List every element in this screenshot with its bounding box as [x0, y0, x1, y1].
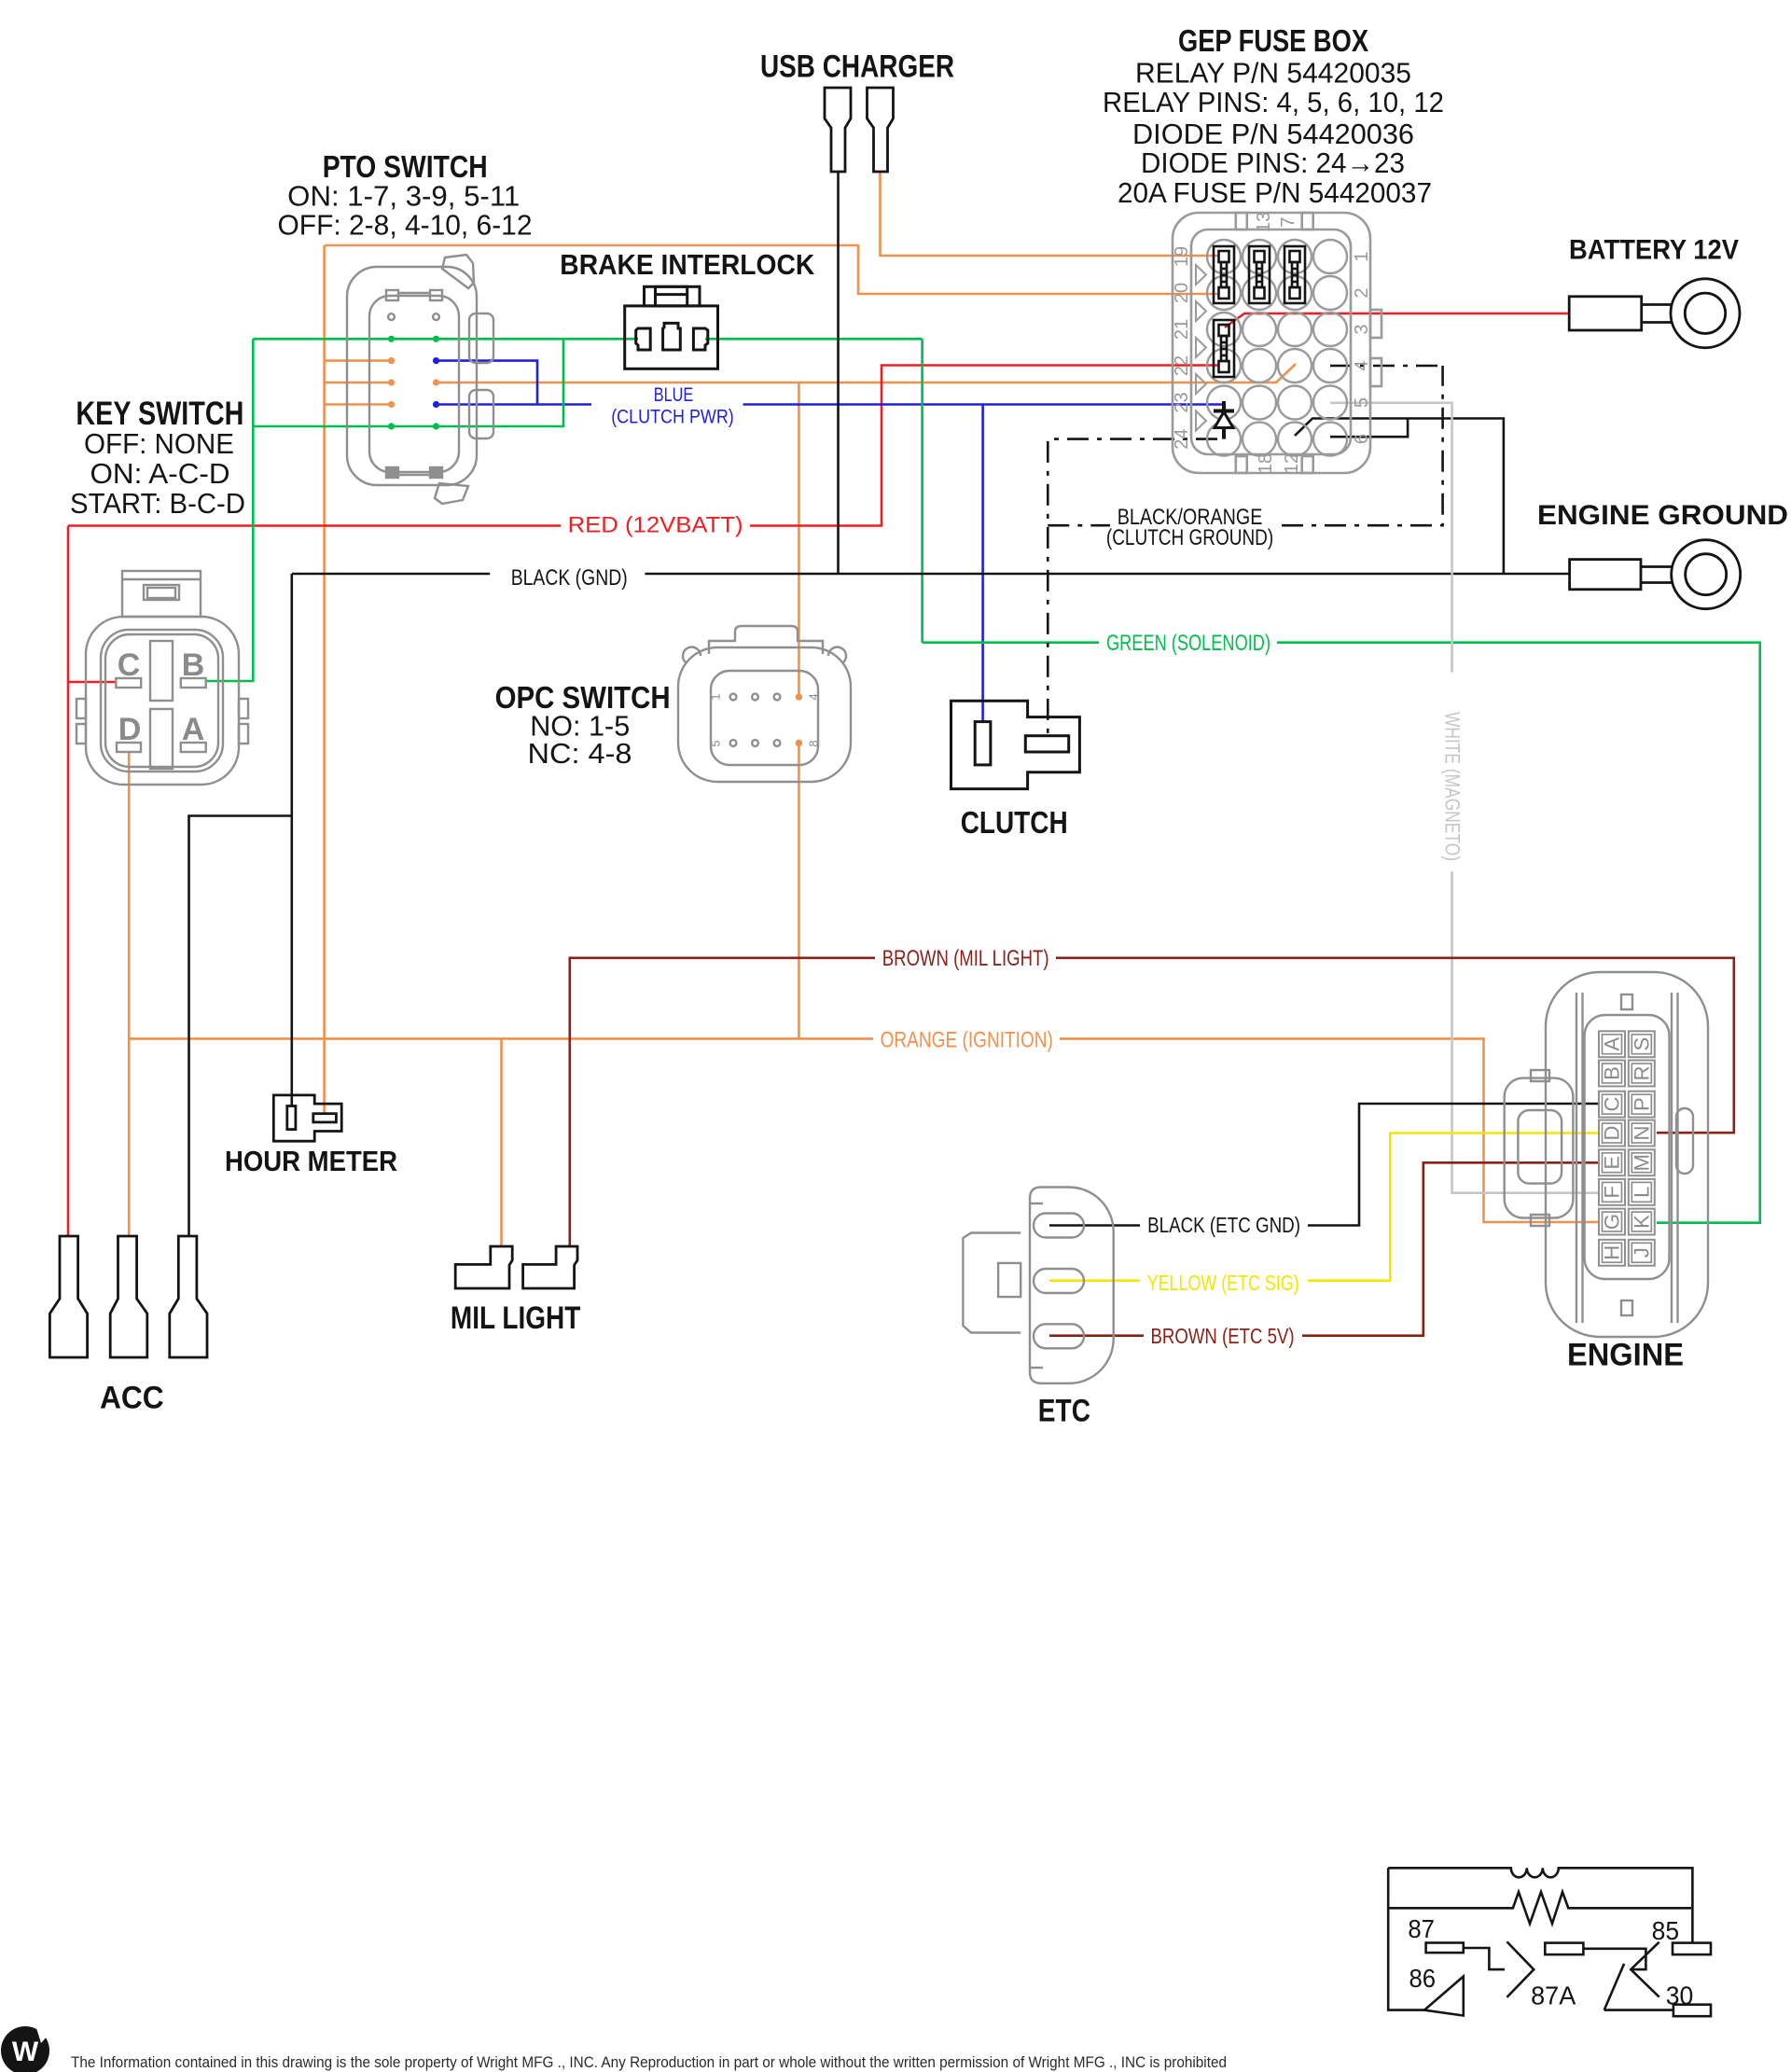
- wire orange ignition horizontal (right of label) to engine pin G: [1060, 1038, 1599, 1222]
- svg-text:ON: A-C-D: ON: A-C-D: [90, 457, 230, 490]
- ACC terminal 3: [170, 1236, 207, 1357]
- svg-text:8: 8: [807, 740, 821, 746]
- wire green: key switch B riser: [207, 339, 254, 681]
- relay schematic: [1388, 1868, 1711, 2016]
- wire black ETC GND: pin to label: [1049, 1224, 1140, 1227]
- engine connector pin grid: [1599, 1031, 1655, 1265]
- svg-text:P: P: [1630, 1097, 1653, 1111]
- wire red: key switch C stub: [68, 681, 116, 684]
- svg-text:RELAY P/N 54420035: RELAY P/N 54420035: [1135, 56, 1411, 89]
- battery ring terminal: [1569, 279, 1740, 348]
- PTO switch connector body: [347, 255, 493, 504]
- svg-text:R: R: [1630, 1065, 1653, 1080]
- svg-text:D: D: [118, 712, 142, 747]
- wire black ETC GND: label to engine pin C: [1308, 1104, 1599, 1226]
- svg-text:ACC: ACC: [100, 1381, 164, 1416]
- engine connector pin inner boxes: [1603, 1035, 1652, 1262]
- svg-text:ENGINE GROUND: ENGINE GROUND: [1537, 500, 1788, 531]
- svg-text:OFF: NONE: OFF: NONE: [84, 427, 234, 460]
- svg-text:21: 21: [1172, 319, 1192, 340]
- wire brown ETC 5V: label to engine pin E: [1302, 1162, 1599, 1335]
- ACC terminal 1: [49, 1236, 87, 1357]
- svg-text:85: 85: [1652, 1916, 1680, 1945]
- wire orange ignition: PTO right pin to fuse pin 4 (diagonal end): [436, 364, 1296, 382]
- wire green row1 to brake interlock: [253, 338, 638, 341]
- wire black GND horizontal (left of label): [292, 573, 490, 576]
- engine connector pin letters: [1601, 1037, 1654, 1260]
- wire orange: PTO branch to fuse pin 20: [325, 245, 1219, 294]
- wire orange: USB charger terminal 2 to fuse pin 19: [881, 172, 1220, 256]
- wire orange: vertical drop to hour meter: [323, 245, 326, 1113]
- MIL light connector left: [455, 1246, 512, 1288]
- wire red: vertical to ACC terminal 1: [67, 526, 70, 1237]
- svg-text:ENGINE: ENGINE: [1567, 1338, 1684, 1373]
- svg-text:HOUR METER: HOUR METER: [225, 1145, 397, 1177]
- key switch connector: [76, 571, 248, 785]
- svg-text:E: E: [1601, 1156, 1624, 1170]
- wire black: fuse pin 6 jog: [1330, 419, 1408, 438]
- wire blue: PTO right pin row2 jog: [436, 361, 537, 405]
- svg-text:18: 18: [1256, 453, 1276, 474]
- svg-text:START: B-C-D: START: B-C-D: [70, 487, 245, 520]
- wire yellow ETC SIG: pin to label: [1049, 1279, 1140, 1282]
- svg-text:C: C: [1601, 1097, 1624, 1112]
- wire green solenoid (left of label): [923, 641, 1099, 644]
- svg-text:87: 87: [1408, 1914, 1435, 1943]
- svg-text:W: W: [12, 2037, 39, 2067]
- svg-text:30: 30: [1666, 1982, 1694, 2010]
- svg-text:4: 4: [1352, 360, 1372, 370]
- fuse box pin cavities (4x6 circles): [1207, 240, 1347, 456]
- svg-text:GEP FUSE BOX: GEP FUSE BOX: [1178, 23, 1368, 58]
- wire blue clutch pwr (left of label): [436, 403, 591, 406]
- svg-text:22: 22: [1172, 355, 1192, 376]
- wire green solenoid (right of label) to engine pin K: [1277, 643, 1760, 1223]
- svg-text:BLUE: BLUE: [654, 384, 693, 406]
- svg-text:A: A: [1601, 1037, 1624, 1051]
- fuse symbol col1 rows1-2: [1214, 246, 1234, 303]
- wire red: fuse pin 3 to battery terminal: [1225, 313, 1569, 327]
- relay switch arm 87-87A: [1507, 1941, 1534, 1996]
- svg-text:20A FUSE P/N 54420037: 20A FUSE P/N 54420037: [1118, 176, 1432, 209]
- svg-text:PTO SWITCH: PTO SWITCH: [323, 149, 488, 184]
- relay coil top line: [1388, 1868, 1692, 1942]
- wire orange: drop to MIL light left connector: [500, 1038, 503, 1246]
- svg-text:M: M: [1630, 1154, 1653, 1171]
- svg-text:7: 7: [1278, 216, 1298, 227]
- wire orange: drop to OPC pin 4: [798, 383, 800, 696]
- wire black dash: clutch ground riser to fuse pin 24: [1048, 366, 1442, 734]
- svg-text:20: 20: [1172, 283, 1192, 303]
- svg-text:GREEN (SOLENOID): GREEN (SOLENOID): [1106, 631, 1270, 656]
- engine ground ring terminal: [1570, 540, 1741, 609]
- wire brown ETC 5V: pin to label: [1049, 1334, 1144, 1337]
- engine connector left latch wing: [1505, 1070, 1574, 1226]
- svg-text:S: S: [1630, 1037, 1653, 1051]
- wire green row1 brake interlock to corner: [705, 338, 923, 341]
- relay pin 30: [1673, 2005, 1711, 2017]
- MIL light connector right: [523, 1246, 577, 1288]
- wire red 12VBATT (right of label) to fuse pin 22: [750, 366, 1219, 526]
- svg-text:1: 1: [1352, 251, 1372, 261]
- fuse box pin numbers: [1172, 212, 1372, 474]
- PTO pins (colored): [388, 336, 439, 430]
- wire black GND horizontal (right of label) to engine ground terminal: [645, 573, 1569, 576]
- svg-text:12: 12: [1282, 453, 1302, 474]
- engine connector capsule: [1546, 972, 1708, 1337]
- svg-text:BROWN (MIL LIGHT): BROWN (MIL LIGHT): [882, 946, 1049, 971]
- GEP fuse box body: [1173, 213, 1381, 473]
- svg-text:ETC: ETC: [1038, 1393, 1090, 1428]
- svg-text:J: J: [1630, 1247, 1653, 1258]
- svg-text:MIL LIGHT: MIL LIGHT: [451, 1300, 581, 1336]
- diode symbol at fuse pins 23-24: [1214, 401, 1234, 439]
- ETC connector: [963, 1188, 1113, 1384]
- svg-text:L: L: [1630, 1187, 1653, 1198]
- relay switch arm 85-30: [1631, 1942, 1659, 1997]
- svg-text:DIODE PINS: 24→23: DIODE PINS: 24→23: [1141, 146, 1405, 179]
- svg-text:D: D: [1601, 1126, 1624, 1141]
- svg-text:H: H: [1601, 1245, 1624, 1260]
- wire black: USB charger terminal 1 to GND: [837, 172, 840, 574]
- svg-text:K: K: [1630, 1215, 1653, 1229]
- svg-text:4: 4: [807, 693, 821, 700]
- USB charger blade terminal 2: [868, 88, 894, 172]
- clutch connector: [951, 701, 1080, 788]
- svg-text:RED (12VBATT): RED (12VBATT): [568, 513, 743, 538]
- USB charger blade terminal 1: [825, 88, 851, 172]
- fuse box left edge triangle markers: [1196, 265, 1206, 431]
- wire blue: drop to clutch left pin: [981, 405, 984, 724]
- wire orange: OPC pin 8 drop to ignition line: [798, 744, 800, 1038]
- relay pin 87: [1426, 1943, 1464, 1954]
- svg-text:BLACK (GND): BLACK (GND): [511, 565, 628, 591]
- svg-text:B: B: [1601, 1066, 1624, 1080]
- brake interlock connector: [625, 286, 718, 369]
- relay pin 86 triangle: [1424, 1977, 1464, 2016]
- svg-text:A: A: [182, 712, 205, 747]
- svg-text:BRAKE INTERLOCK: BRAKE INTERLOCK: [560, 248, 815, 281]
- svg-text:C: C: [118, 647, 141, 683]
- fuse symbol col3 rows1-2: [1284, 246, 1305, 303]
- svg-text:6: 6: [1352, 434, 1372, 444]
- svg-text:N: N: [1630, 1126, 1653, 1141]
- svg-text:BROWN (ETC 5V): BROWN (ETC 5V): [1151, 1324, 1295, 1348]
- wire orange: PTO left pin stubs: [325, 359, 392, 362]
- svg-text:DIODE P/N 54420036: DIODE P/N 54420036: [1132, 118, 1414, 150]
- svg-text:3: 3: [1352, 324, 1372, 334]
- wire black: GND drop to hour meter: [290, 574, 293, 1106]
- svg-text:ORANGE (IGNITION): ORANGE (IGNITION): [881, 1028, 1053, 1053]
- relay box left and bottom: [1388, 1868, 1424, 2009]
- relay pin 85: [1673, 1943, 1711, 1955]
- relay resistor line: [1388, 1892, 1691, 1924]
- OPC corner pin numbers: [709, 693, 821, 746]
- svg-text:USB CHARGER: USB CHARGER: [760, 49, 954, 85]
- svg-text:(CLUTCH GROUND): (CLUTCH GROUND): [1106, 525, 1273, 550]
- svg-text:The Information contained in t: The Information contained in this drawin…: [71, 2053, 1227, 2071]
- svg-text:(CLUTCH PWR): (CLUTCH PWR): [611, 407, 734, 428]
- svg-text:BATTERY 12V: BATTERY 12V: [1569, 235, 1739, 266]
- Wright logo: [1, 2026, 49, 2072]
- svg-text:87A: 87A: [1531, 1982, 1576, 2010]
- svg-text:5: 5: [1352, 397, 1372, 408]
- svg-text:F: F: [1601, 1186, 1624, 1198]
- wire black: fuse pin 6 to GND: [1295, 419, 1504, 575]
- fuse symbol col2 rows1-2: [1249, 246, 1270, 303]
- fuse symbol col1 rows3-4: [1214, 320, 1234, 377]
- wire white magneto: fuse pin 5 to engine pin F: [1330, 403, 1599, 1193]
- svg-text:86: 86: [1409, 1964, 1437, 1993]
- wire orange: key switch D to ACC terminal 2: [128, 752, 131, 1236]
- wire green: drop to solenoid line: [921, 339, 923, 642]
- wire green row5 and link: [253, 339, 563, 426]
- svg-text:1: 1: [709, 693, 723, 700]
- svg-text:BLACK (ETC GND): BLACK (ETC GND): [1147, 1213, 1300, 1237]
- svg-text:5: 5: [709, 740, 723, 746]
- svg-text:24: 24: [1172, 428, 1192, 449]
- svg-text:WHITE (MAGNETO): WHITE (MAGNETO): [1441, 712, 1465, 861]
- svg-text:YELLOW (ETC SIG): YELLOW (ETC SIG): [1147, 1271, 1299, 1295]
- key switch letters C B D A: [118, 647, 205, 747]
- wire red 12VBATT horizontal (left of label): [68, 524, 561, 527]
- svg-text:13: 13: [1254, 212, 1274, 232]
- svg-text:2: 2: [1352, 287, 1372, 298]
- svg-text:NC: 4-8: NC: 4-8: [528, 737, 632, 770]
- relay pin 87A: [1545, 1943, 1583, 1955]
- svg-text:OFF: 2-8, 4-10, 6-12: OFF: 2-8, 4-10, 6-12: [278, 209, 533, 242]
- wire yellow ETC SIG: label to engine pin D: [1308, 1133, 1599, 1281]
- hour meter connector: [273, 1095, 341, 1141]
- svg-text:CLUTCH: CLUTCH: [961, 805, 1068, 840]
- wire orange ignition horizontal (left of label): [129, 1037, 873, 1040]
- svg-text:23: 23: [1172, 392, 1192, 412]
- wire brown MIL light: MIL connector riser (left of label): [570, 958, 875, 1246]
- wire blue clutch pwr (right of label) to fuse pin 23: [743, 403, 1225, 406]
- wire black: branch to ACC terminal 3: [189, 816, 292, 1237]
- svg-text:ON: 1-7, 3-9, 5-11: ON: 1-7, 3-9, 5-11: [287, 180, 520, 213]
- svg-text:B: B: [182, 647, 205, 683]
- svg-text:RELAY PINS: 4, 5, 6, 10, 12: RELAY PINS: 4, 5, 6, 10, 12: [1103, 86, 1444, 118]
- svg-text:G: G: [1601, 1214, 1624, 1230]
- OPC switch connector: [678, 626, 851, 782]
- OPC pins 4 and 8 (orange): [796, 693, 803, 701]
- svg-text:19: 19: [1172, 246, 1192, 267]
- ACC terminal 2: [110, 1236, 147, 1357]
- wire brown MIL light (right of label) to engine pin N: [1056, 958, 1734, 1133]
